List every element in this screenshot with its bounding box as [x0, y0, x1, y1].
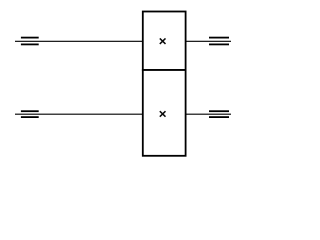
wire W1: top-left input wire	[15, 40, 144, 42]
port P3 (double-bar symbol, top-right)	[209, 37, 229, 46]
wire W4: bottom-right output wire	[185, 113, 231, 115]
mixer U1 x symbol	[160, 38, 166, 44]
mixer U2 x symbol	[160, 111, 166, 117]
port P1 (double-bar symbol, top-left)	[21, 37, 39, 46]
wire W3: top-right output wire	[185, 40, 231, 42]
port P4 (double-bar symbol, bottom-right)	[209, 110, 229, 118]
mixer U2 (box with x, bottom)	[143, 70, 186, 156]
port P2 (double-bar symbol, bottom-left)	[21, 110, 39, 118]
wire W2: bottom-left input wire	[15, 113, 144, 115]
mixer U1 (box with x, top)	[143, 12, 186, 71]
